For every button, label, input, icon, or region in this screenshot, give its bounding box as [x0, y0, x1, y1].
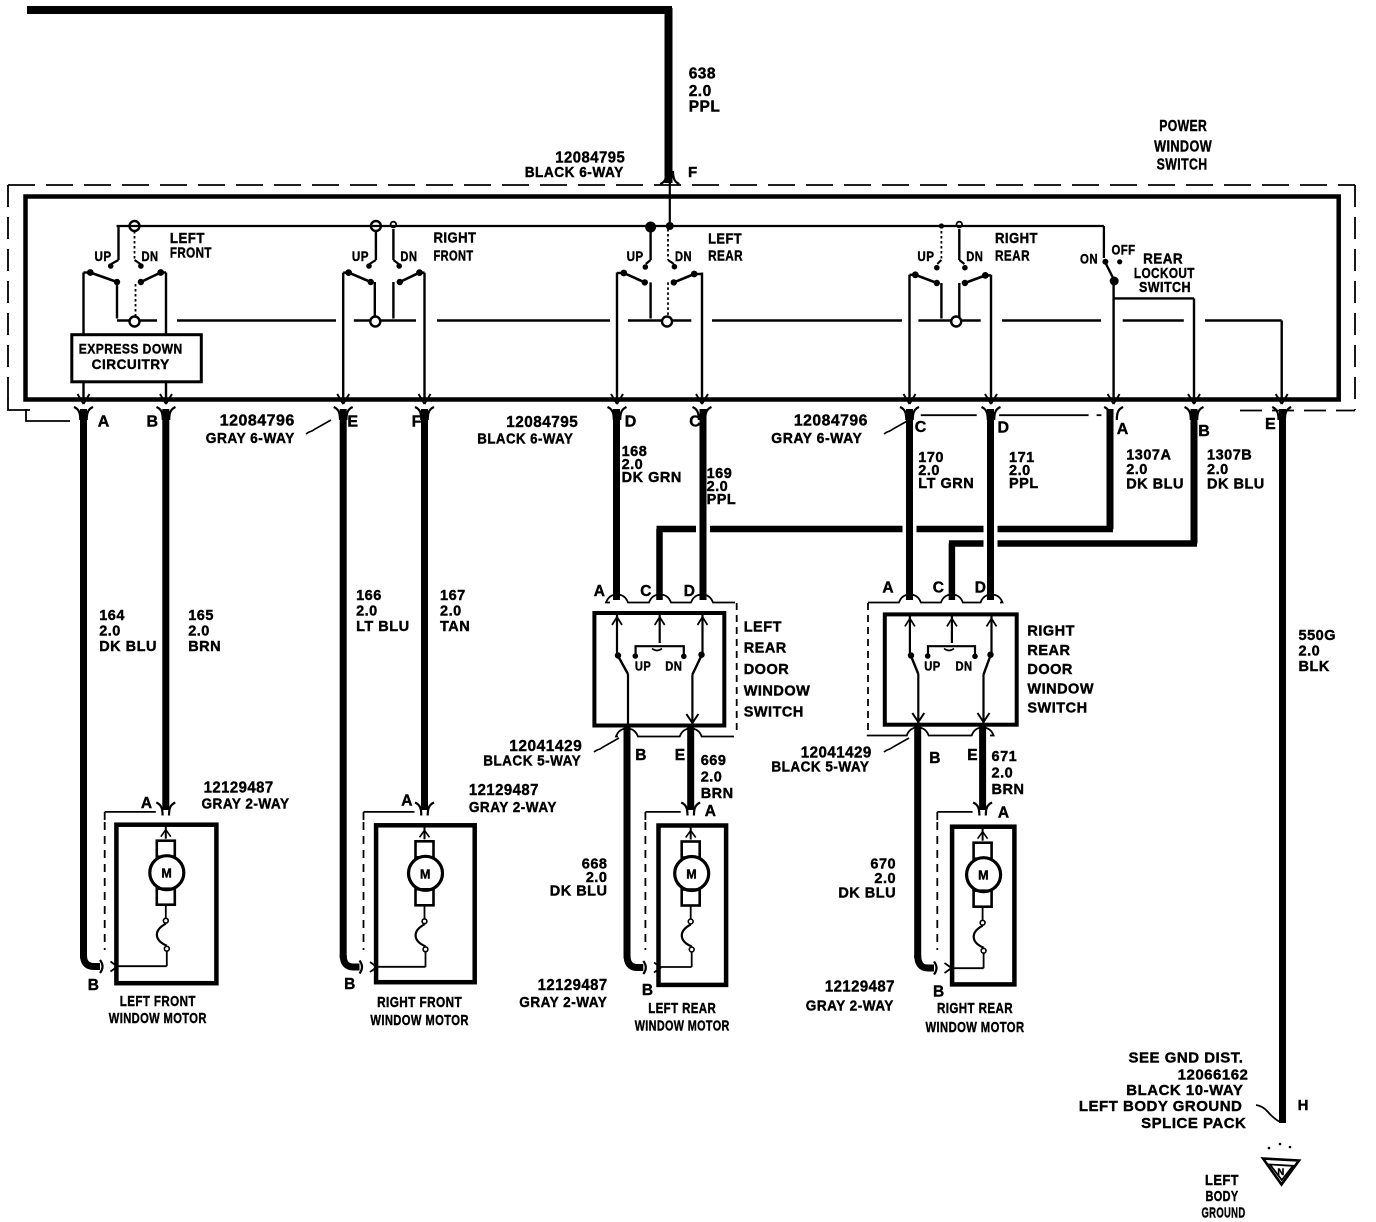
svg-text:LEFT BODY GROUND: LEFT BODY GROUND: [1079, 1098, 1243, 1115]
svg-text:DOOR: DOOR: [744, 662, 790, 678]
svg-text:DN: DN: [675, 249, 692, 264]
svg-text:E: E: [1265, 416, 1276, 433]
svg-text:BODY: BODY: [1206, 1188, 1239, 1205]
svg-text:FRONT: FRONT: [434, 248, 474, 264]
svg-text:167: 167: [440, 588, 466, 604]
svg-text:C: C: [640, 583, 652, 600]
svg-text:UP: UP: [635, 659, 651, 674]
svg-text:N: N: [1277, 1167, 1284, 1178]
svg-text:REAR: REAR: [995, 249, 1030, 265]
svg-text:2.0: 2.0: [356, 604, 378, 620]
svg-text:POWER: POWER: [1159, 118, 1207, 135]
svg-text:C: C: [933, 580, 945, 597]
svg-text:166: 166: [356, 588, 382, 604]
svg-text:SWITCH: SWITCH: [744, 705, 804, 721]
svg-text:DK BLU: DK BLU: [1207, 477, 1265, 493]
svg-text:SWITCH: SWITCH: [1139, 280, 1191, 296]
svg-text:F: F: [412, 413, 422, 430]
svg-text:BLACK 5-WAY: BLACK 5-WAY: [771, 760, 869, 776]
svg-text:WINDOW MOTOR: WINDOW MOTOR: [635, 1019, 730, 1035]
svg-text:FRONT: FRONT: [170, 246, 212, 262]
svg-text:638: 638: [689, 66, 716, 83]
svg-text:2.0: 2.0: [188, 624, 210, 640]
svg-text:12129487: 12129487: [825, 979, 895, 996]
svg-text:GRAY 6-WAY: GRAY 6-WAY: [771, 431, 862, 447]
svg-text:BLACK 5-WAY: BLACK 5-WAY: [483, 753, 581, 769]
svg-text:12129487: 12129487: [204, 779, 274, 796]
svg-text:A: A: [594, 583, 606, 600]
svg-text:ON: ON: [1080, 252, 1098, 267]
svg-text:A: A: [705, 803, 717, 820]
svg-text:BLACK 10-WAY: BLACK 10-WAY: [1126, 1082, 1243, 1099]
svg-text:A: A: [141, 795, 153, 812]
svg-text:M: M: [420, 867, 431, 881]
svg-text:GRAY 2-WAY: GRAY 2-WAY: [519, 995, 607, 1011]
svg-text:LT BLU: LT BLU: [356, 619, 409, 635]
svg-text:EXPRESS DOWN: EXPRESS DOWN: [79, 342, 183, 357]
svg-text:GRAY 6-WAY: GRAY 6-WAY: [206, 431, 295, 447]
svg-text:D: D: [625, 413, 637, 430]
svg-text:E: E: [347, 413, 358, 430]
svg-text:SPLICE PACK: SPLICE PACK: [1141, 1115, 1246, 1132]
svg-text:DOOR: DOOR: [1027, 662, 1073, 678]
svg-text:B: B: [635, 747, 647, 764]
svg-text:WINDOW MOTOR: WINDOW MOTOR: [926, 1020, 1025, 1036]
svg-text:F: F: [688, 164, 698, 181]
svg-text:RIGHT FRONT: RIGHT FRONT: [377, 995, 462, 1011]
svg-text:DN: DN: [966, 249, 983, 264]
svg-text:SWITCH: SWITCH: [1027, 701, 1087, 717]
svg-text:165: 165: [188, 608, 214, 624]
svg-text:DN: DN: [665, 659, 682, 674]
svg-text:TAN: TAN: [440, 619, 470, 635]
svg-text:A: A: [1117, 421, 1129, 438]
svg-text:DK BLU: DK BLU: [838, 886, 896, 902]
svg-text:OFF: OFF: [1112, 243, 1136, 258]
svg-text:BLK: BLK: [1299, 659, 1330, 675]
svg-text:B: B: [147, 413, 159, 430]
svg-text:D: D: [684, 583, 696, 600]
svg-text:B: B: [1198, 423, 1210, 440]
svg-text:2.0: 2.0: [701, 770, 723, 786]
svg-text:SEE GND DIST.: SEE GND DIST.: [1129, 1050, 1244, 1067]
svg-text:LEFT: LEFT: [744, 619, 782, 635]
svg-text:A: A: [98, 413, 110, 430]
svg-text:E: E: [675, 747, 686, 764]
svg-text:A: A: [401, 793, 413, 810]
svg-text:UP: UP: [627, 249, 644, 264]
svg-text:D: D: [975, 580, 987, 597]
svg-text:PPL: PPL: [1009, 476, 1039, 492]
svg-text:BRN: BRN: [992, 782, 1025, 798]
svg-text:12129487: 12129487: [538, 977, 608, 994]
svg-text:WINDOW MOTOR: WINDOW MOTOR: [109, 1011, 207, 1027]
svg-text:UP: UP: [95, 249, 112, 264]
svg-text:2.0: 2.0: [440, 604, 462, 620]
svg-text:DK BLU: DK BLU: [99, 639, 157, 655]
svg-text:A: A: [882, 580, 894, 597]
svg-text:WINDOW: WINDOW: [1154, 139, 1212, 156]
svg-text:671: 671: [992, 749, 1018, 765]
svg-text:LT GRN: LT GRN: [918, 476, 974, 492]
svg-text:CIRCUITRY: CIRCUITRY: [92, 357, 170, 372]
svg-text:PPL: PPL: [689, 99, 721, 116]
svg-text:669: 669: [701, 753, 727, 769]
svg-text:BRN: BRN: [701, 786, 734, 802]
svg-text:LEFT FRONT: LEFT FRONT: [120, 994, 196, 1010]
svg-text:PPL: PPL: [707, 492, 737, 508]
svg-text:12129487: 12129487: [469, 782, 539, 799]
svg-text:GRAY 2-WAY: GRAY 2-WAY: [806, 999, 894, 1015]
svg-text:12084796: 12084796: [220, 413, 295, 430]
svg-text:REAR: REAR: [1027, 643, 1070, 659]
svg-text:RIGHT REAR: RIGHT REAR: [937, 1001, 1013, 1017]
svg-text:M: M: [978, 869, 989, 883]
svg-text:RIGHT: RIGHT: [1027, 624, 1075, 640]
svg-text:D: D: [998, 419, 1010, 436]
svg-text:M: M: [686, 868, 697, 882]
svg-text:2.0: 2.0: [992, 766, 1014, 782]
svg-text:WINDOW: WINDOW: [1027, 681, 1094, 697]
svg-text:UP: UP: [924, 659, 940, 674]
svg-text:550G: 550G: [1299, 628, 1336, 644]
svg-text:SWITCH: SWITCH: [1157, 157, 1208, 174]
svg-text:164: 164: [99, 608, 125, 624]
svg-text:A: A: [998, 805, 1010, 822]
svg-text:B: B: [933, 984, 945, 1001]
svg-text:2.0: 2.0: [1299, 644, 1321, 660]
svg-text:H: H: [1298, 1097, 1309, 1114]
svg-text:GRAY 2-WAY: GRAY 2-WAY: [202, 796, 290, 812]
svg-text:GRAY 2-WAY: GRAY 2-WAY: [469, 800, 557, 816]
svg-text:DN: DN: [400, 249, 417, 264]
svg-text:GROUND: GROUND: [1202, 1205, 1246, 1222]
svg-text:C: C: [915, 419, 927, 436]
svg-text:DN: DN: [956, 659, 973, 674]
svg-text:LEFT: LEFT: [1205, 1172, 1239, 1189]
svg-text:UP: UP: [917, 249, 934, 264]
svg-text:REAR: REAR: [744, 641, 787, 657]
svg-text:BLACK 6-WAY: BLACK 6-WAY: [477, 432, 573, 448]
svg-text:WINDOW MOTOR: WINDOW MOTOR: [370, 1013, 469, 1029]
svg-text:REAR: REAR: [708, 248, 743, 264]
svg-text:DK BLU: DK BLU: [1126, 477, 1184, 493]
svg-text:LEFT REAR: LEFT REAR: [648, 1001, 716, 1017]
svg-text:DK GRN: DK GRN: [622, 470, 682, 486]
svg-text:BRN: BRN: [188, 639, 221, 655]
svg-text:B: B: [929, 750, 941, 767]
svg-text:WINDOW: WINDOW: [744, 683, 811, 699]
svg-text:UP: UP: [352, 249, 369, 264]
svg-text:E: E: [967, 747, 978, 764]
svg-text:RIGHT: RIGHT: [995, 231, 1038, 247]
svg-text:BLACK 6-WAY: BLACK 6-WAY: [525, 165, 624, 181]
svg-text:12084795: 12084795: [506, 414, 578, 431]
svg-text:2.0: 2.0: [689, 83, 712, 100]
svg-text:M: M: [161, 867, 172, 881]
svg-text:B: B: [88, 977, 100, 994]
svg-text:LEFT: LEFT: [708, 232, 742, 248]
svg-text:2.0: 2.0: [99, 624, 121, 640]
svg-text:12084795: 12084795: [555, 150, 625, 167]
svg-text:DN: DN: [142, 249, 159, 264]
svg-text:12084796: 12084796: [794, 413, 868, 430]
svg-text:RIGHT: RIGHT: [434, 230, 477, 246]
svg-text:DK BLU: DK BLU: [550, 884, 608, 900]
svg-text:B: B: [344, 976, 356, 993]
svg-text:B: B: [642, 982, 654, 999]
